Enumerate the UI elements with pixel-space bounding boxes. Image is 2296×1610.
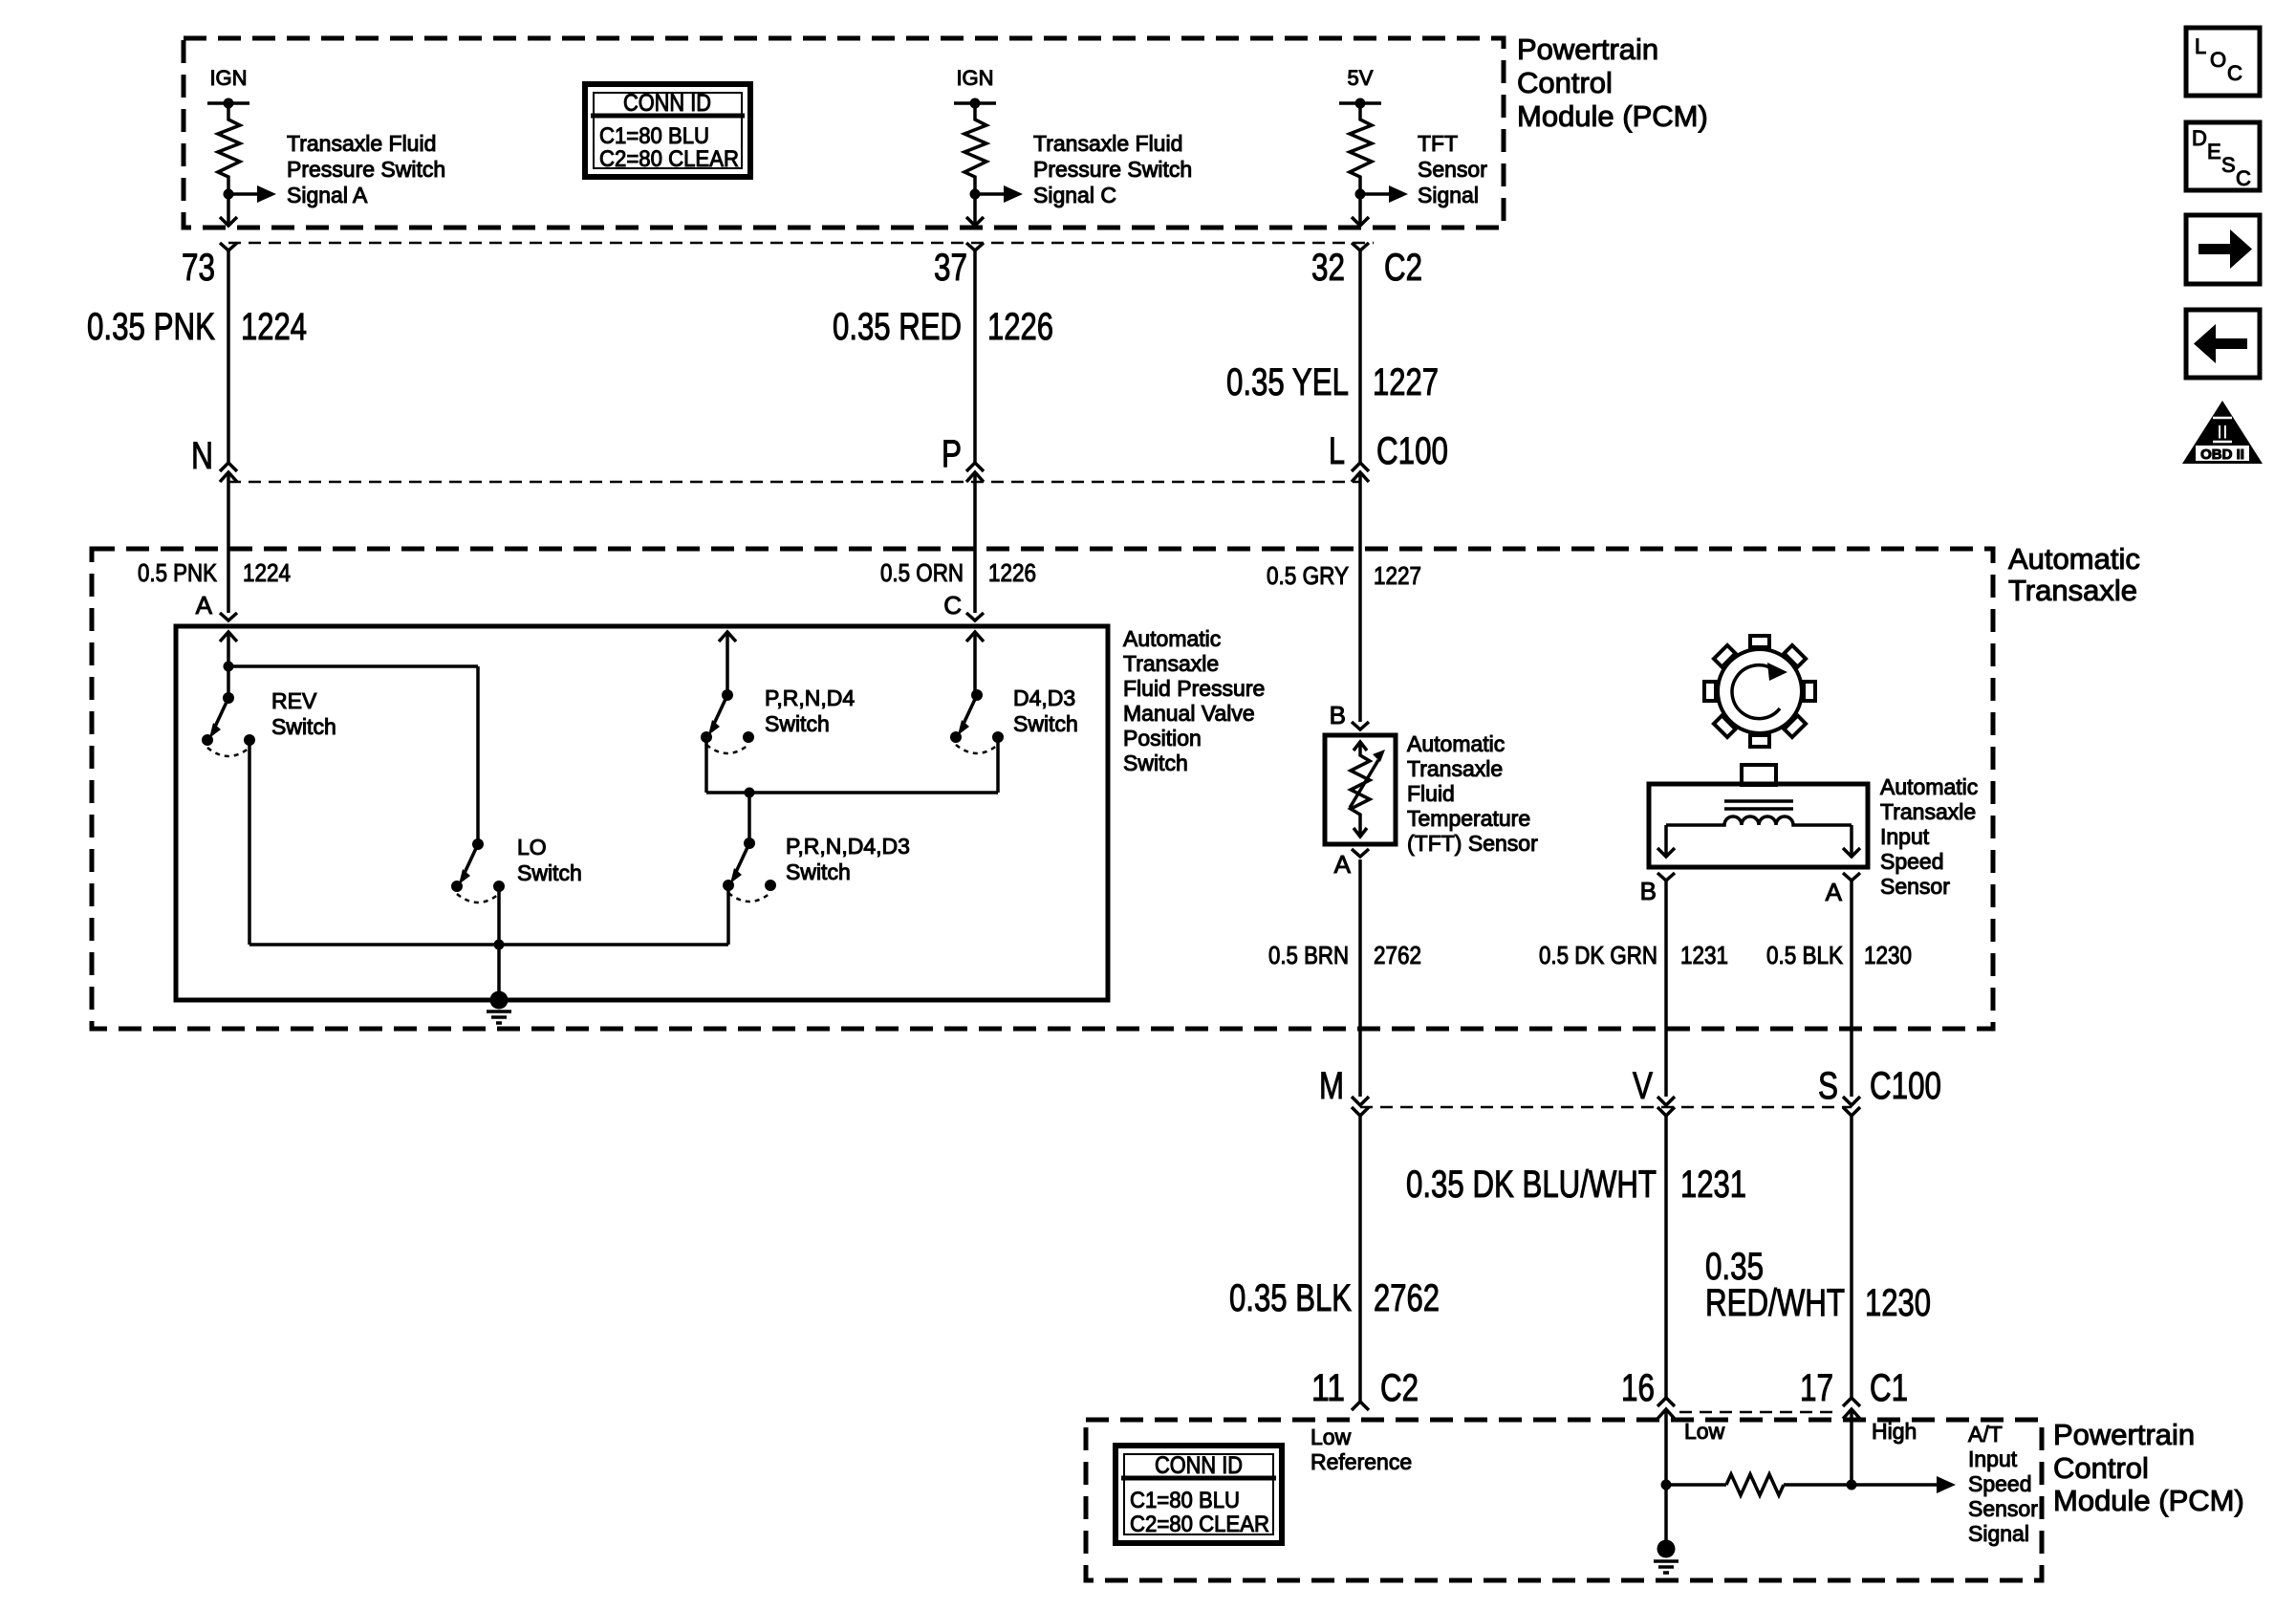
svg-text:C2=80 CLEAR: C2=80 CLEAR: [1130, 1512, 1269, 1537]
internal resistor (horizontal): [1666, 1483, 1726, 1487]
svg-text:C1=80 BLU: C1=80 BLU: [599, 123, 709, 149]
svg-text:Signal: Signal: [1418, 183, 1479, 207]
signal arrow: [228, 192, 257, 196]
svg-text:Automatic: Automatic: [1407, 731, 1505, 756]
svg-text:S: S: [2221, 153, 2236, 177]
svg-text:0.5 DK GRN: 0.5 DK GRN: [1539, 941, 1657, 969]
wire speed B down: [1664, 881, 1668, 1097]
CONN ID table (top): [585, 84, 750, 177]
svg-text:17: 17: [1800, 1367, 1833, 1409]
connector C1 dashed segment: [1679, 1411, 1838, 1414]
svg-text:CONN ID: CONN ID: [1155, 1452, 1243, 1479]
dashed throw arc: [706, 745, 748, 753]
svg-text:Module (PCM): Module (PCM): [1517, 99, 1708, 133]
svg-text:A: A: [196, 591, 213, 620]
switch arm with arrowhead: [215, 698, 228, 727]
svg-text:B: B: [1330, 701, 1346, 729]
svg-text:Powertrain: Powertrain: [2053, 1418, 2195, 1451]
wire label 0.35 RED 1226: [833, 306, 1053, 348]
junction dot: [970, 98, 981, 109]
svg-text:Control: Control: [2053, 1451, 2149, 1485]
svg-text:Speed: Speed: [1880, 849, 1944, 874]
svg-text:A/T: A/T: [1968, 1422, 2003, 1447]
terminal fork at A: [220, 613, 237, 620]
svg-text:1230: 1230: [1864, 941, 1912, 969]
svg-text:Signal A: Signal A: [287, 183, 368, 207]
Automatic Transaxle title: [2008, 542, 2140, 607]
connector halves at pin 17: [1843, 1398, 1860, 1406]
svg-text:B: B: [1640, 877, 1657, 905]
wire junction to REV pivot: [227, 666, 230, 698]
wire L to TFT sensor: [1358, 472, 1362, 722]
switch pivot dot: [744, 838, 755, 849]
terminal fork at speed A: [1843, 873, 1860, 881]
signal label: [1033, 131, 1192, 207]
switch arm with arrowhead: [465, 844, 478, 873]
svg-text:Transaxle: Transaxle: [1880, 799, 1976, 824]
CONN ID table (bottom): [1116, 1446, 1282, 1543]
svg-text:D: D: [2192, 126, 2207, 150]
switch pivot dot: [722, 689, 733, 701]
LOC nav icon: [2186, 28, 2260, 96]
connector halves C100 bottom x=1937: [1843, 1097, 1860, 1105]
svg-text:C100: C100: [1376, 430, 1448, 472]
right arrow nav icon: [2186, 215, 2260, 284]
terminal fork at pin 11: [1352, 1402, 1369, 1410]
OBD II icon: [2182, 401, 2263, 464]
junction dot: [224, 189, 234, 200]
svg-text:0.35 DK BLU/WHT: 0.35 DK BLU/WHT: [1406, 1164, 1657, 1206]
svg-text:32: 32: [1311, 247, 1345, 289]
svg-text:Powertrain: Powertrain: [1517, 33, 1658, 66]
wire label 0.35 DK BLU/WHT 1231: [1406, 1164, 1746, 1206]
svg-text:1224: 1224: [243, 558, 291, 587]
switch contacts: [451, 881, 463, 892]
left arrow nav icon: [2186, 310, 2260, 378]
svg-text:CONN ID: CONN ID: [623, 90, 711, 117]
manual valve position switch box (solid): [176, 626, 1108, 1000]
svg-text:Fluid Pressure: Fluid Pressure: [1123, 676, 1265, 701]
wire P,R,N,D4,D3 left contact down: [726, 887, 730, 945]
switch label: [786, 834, 910, 884]
svg-text:Low: Low: [1684, 1419, 1725, 1444]
wire 1226 (37 to P): [973, 250, 977, 463]
power feed stub: [954, 101, 996, 105]
connector halves C100 bottom x=1423: [1352, 1097, 1369, 1105]
terminal fork at speed B: [1657, 873, 1675, 881]
svg-text:IGN: IGN: [209, 66, 247, 90]
signal arrow: [1360, 192, 1389, 196]
junction node 16: [1661, 1480, 1672, 1490]
svg-text:E: E: [2207, 140, 2221, 163]
svg-text:Low: Low: [1310, 1425, 1352, 1449]
connector halves C100 bottom x=1743: [1657, 1097, 1675, 1105]
junction node A: [224, 662, 234, 672]
wire label 0.35 YEL 1227: [1226, 361, 1439, 403]
wire D4,D3 right contact down: [996, 739, 1000, 793]
junction dot: [1355, 189, 1366, 200]
svg-text:0.5 GRY: 0.5 GRY: [1267, 561, 1349, 590]
wire LO contact to ground: [497, 886, 501, 1000]
junction node 17: [1847, 1480, 1857, 1490]
wire 16 internal: [1664, 1409, 1668, 1485]
svg-text:Switch: Switch: [1123, 751, 1188, 775]
speed sensor label: [1880, 774, 1978, 899]
wire M to 11: [1358, 1116, 1362, 1402]
PCM title (top): [1517, 33, 1708, 133]
ground (PCM internal): [1654, 1540, 1679, 1574]
wire 1224 (73 to N): [227, 250, 230, 463]
coil lead B with arrow: [1664, 825, 1668, 857]
switch arm with arrowhead: [964, 695, 977, 724]
svg-text:Switch: Switch: [271, 714, 336, 739]
svg-text:37: 37: [934, 247, 967, 289]
svg-text:V: V: [1633, 1065, 1653, 1107]
svg-text:0.35 PNK: 0.35 PNK: [87, 306, 215, 348]
svg-text:REV: REV: [271, 688, 317, 713]
input speed sensor box: [1649, 784, 1868, 867]
svg-text:16: 16: [1621, 1367, 1655, 1409]
switch arm with arrowhead: [736, 843, 749, 872]
wire P to C: [973, 472, 977, 613]
wire to PCM border with down arrow: [1358, 194, 1362, 226]
DESC nav icon: [2186, 122, 2260, 190]
svg-text:II: II: [2217, 422, 2228, 444]
svg-text:Input: Input: [1968, 1447, 2018, 1471]
svg-text:0.35 RED: 0.35 RED: [833, 306, 962, 348]
svg-text:1224: 1224: [241, 306, 307, 348]
svg-text:Automatic: Automatic: [2008, 542, 2140, 576]
junction dot: [970, 189, 981, 200]
svg-text:Reference: Reference: [1310, 1449, 1412, 1474]
svg-text:Control: Control: [1517, 66, 1613, 99]
svg-text:Transaxle Fluid: Transaxle Fluid: [287, 131, 436, 156]
svg-text:2762: 2762: [1374, 1277, 1440, 1319]
switch contacts: [950, 731, 962, 743]
svg-text:C1: C1: [1870, 1367, 1908, 1409]
terminal fork at TFT B: [1352, 722, 1369, 729]
svg-text:73: 73: [182, 247, 215, 289]
switch label: [1013, 685, 1078, 736]
Powertrain Control Module box (bottom, dashed): [1086, 1420, 2042, 1580]
wire 17 internal: [1850, 1409, 1853, 1485]
svg-text:1231: 1231: [1680, 941, 1728, 969]
coil lead A with arrow: [1850, 825, 1853, 857]
svg-text:A: A: [1334, 850, 1352, 879]
wire REV contact down: [248, 740, 251, 945]
svg-text:Input: Input: [1880, 824, 1930, 849]
svg-text:Fluid: Fluid: [1407, 781, 1455, 806]
switch contacts: [723, 880, 734, 891]
switch label: [517, 835, 582, 885]
TFT sensor label: [1407, 731, 1538, 856]
ground (case): [487, 991, 511, 1024]
wire to PCM border with down arrow: [973, 194, 977, 226]
junction node: [745, 788, 755, 798]
wire label 0.35 BLK 2762: [1229, 1277, 1440, 1319]
Low Reference label: [1310, 1425, 1412, 1474]
svg-text:C2: C2: [1384, 247, 1422, 289]
svg-text:P,R,N,D4: P,R,N,D4: [765, 685, 855, 710]
svg-text:C: C: [2236, 166, 2251, 190]
wire S to 17: [1850, 1116, 1853, 1398]
connector halves C100 x=1020: [966, 463, 984, 471]
entry arrow at A: [220, 632, 237, 642]
speed sensor mount: [1742, 765, 1776, 785]
svg-text:0.5 ORN: 0.5 ORN: [880, 558, 964, 587]
svg-text:C1=80 BLU: C1=80 BLU: [1130, 1488, 1240, 1513]
wire label 0.5 BLK 1230: [1766, 941, 1912, 969]
switch contacts: [701, 731, 712, 743]
svg-text:P: P: [942, 433, 962, 475]
svg-text:L: L: [2195, 34, 2206, 58]
svg-text:L: L: [1329, 430, 1345, 472]
signal label: [1418, 131, 1487, 207]
svg-text:11: 11: [1311, 1367, 1345, 1409]
wire label 0.5 GRY 1227: [1267, 561, 1421, 590]
switch label: [271, 688, 336, 739]
signal label: [287, 131, 445, 207]
svg-text:Manual Valve: Manual Valve: [1123, 701, 1255, 726]
svg-text:0.5 BLK: 0.5 BLK: [1766, 941, 1844, 969]
connector fork at C2 x=1423: [1352, 243, 1369, 250]
dashed throw arc: [207, 748, 249, 756]
wire label 0.5 DK GRN 1231: [1539, 941, 1728, 969]
signal arrow: [975, 192, 1004, 196]
dashed throw arc: [956, 745, 998, 753]
svg-text:Switch: Switch: [1013, 711, 1078, 736]
pickup coil: [1666, 816, 1852, 825]
wire 1227 (32 to L): [1358, 250, 1362, 463]
junction dot: [224, 98, 234, 109]
svg-text:TFT: TFT: [1418, 131, 1458, 156]
svg-text:C2: C2: [1380, 1367, 1419, 1409]
Powertrain Control Module box (top, dashed): [184, 38, 1504, 228]
connector fork at C2 x=239: [220, 243, 237, 250]
switch pivot dot: [472, 838, 484, 850]
wire label 0.5 PNK 1224: [138, 558, 291, 587]
power feed stub: [207, 101, 249, 105]
svg-text:LO: LO: [517, 835, 547, 859]
svg-text:S: S: [1818, 1065, 1838, 1107]
svg-text:Transaxle: Transaxle: [1407, 756, 1503, 781]
switch label: [765, 685, 855, 736]
A/T input speed sensor signal arrow: [1852, 1483, 1937, 1487]
svg-text:2762: 2762: [1374, 941, 1421, 969]
connector fork at C2 x=1020: [966, 243, 984, 250]
wire label 0.5 ORN 1226: [880, 558, 1036, 587]
wire junction to LO branch: [228, 664, 478, 668]
pickup coil core lines: [1724, 799, 1793, 803]
valve position switch label: [1123, 626, 1265, 775]
connector C100 dashed line (bottom): [1360, 1106, 1852, 1109]
A/T signal label: [1968, 1422, 2038, 1546]
svg-text:1227: 1227: [1374, 561, 1421, 590]
dashed throw arc: [457, 894, 499, 903]
svg-text:A: A: [1826, 878, 1843, 906]
svg-text:1230: 1230: [1865, 1282, 1931, 1324]
svg-text:Signal C: Signal C: [1033, 183, 1116, 207]
svg-text:(TFT) Sensor: (TFT) Sensor: [1407, 831, 1538, 856]
switch pivot dot: [971, 689, 983, 701]
svg-text:P,R,N,D4,D3: P,R,N,D4,D3: [786, 834, 910, 859]
wire bus between switch outputs: [706, 791, 998, 794]
svg-text:1226: 1226: [987, 306, 1053, 348]
svg-text:Switch: Switch: [786, 859, 851, 884]
svg-text:0.35 YEL: 0.35 YEL: [1226, 361, 1349, 403]
svg-text:OBD II: OBD II: [2200, 446, 2244, 463]
svg-text:Transaxle: Transaxle: [2008, 574, 2137, 607]
svg-text:C2=80 CLEAR: C2=80 CLEAR: [599, 146, 739, 172]
svg-text:Speed: Speed: [1968, 1471, 2032, 1496]
switch arm with arrowhead: [714, 695, 727, 724]
svg-text:1227: 1227: [1373, 361, 1439, 403]
svg-text:Sensor: Sensor: [1418, 157, 1487, 182]
wire junction to P,R,N,D4,D3 pivot: [747, 793, 751, 843]
Automatic Transaxle box (dashed): [92, 549, 1993, 1029]
svg-text:O: O: [2210, 48, 2226, 72]
junction dot: [1355, 98, 1366, 109]
junction node on bus: [494, 940, 505, 950]
wire label 0.35 RED/WHT 1230: [1705, 1246, 1931, 1324]
svg-text:1231: 1231: [1680, 1164, 1746, 1206]
connector halves at pin 16: [1657, 1398, 1675, 1406]
resistor zigzag: [964, 103, 986, 194]
TFT thermistor symbol: [1354, 742, 1367, 751]
svg-text:Switch: Switch: [517, 860, 582, 885]
wire label 0.35 PNK 1224: [87, 306, 307, 348]
svg-text:0.5 PNK: 0.5 PNK: [138, 558, 218, 587]
svg-text:1226: 1226: [988, 558, 1036, 587]
svg-text:Position: Position: [1123, 726, 1202, 751]
wire to PCM border with down arrow: [227, 194, 230, 226]
connector halves C100 x=1423: [1352, 463, 1369, 471]
svg-text:Transaxle: Transaxle: [1123, 651, 1219, 676]
connector halves C100 x=239: [220, 463, 237, 471]
svg-text:Pressure Switch: Pressure Switch: [1033, 157, 1192, 182]
svg-text:C100: C100: [1870, 1065, 1941, 1107]
svg-text:Module (PCM): Module (PCM): [2053, 1484, 2244, 1517]
wire N to A: [227, 472, 230, 613]
resistor zigzag: [1350, 103, 1372, 194]
svg-text:High: High: [1872, 1419, 1917, 1444]
ground bus wire: [249, 943, 728, 946]
svg-text:Automatic: Automatic: [1880, 774, 1978, 799]
svg-text:Pressure Switch: Pressure Switch: [287, 157, 445, 182]
svg-text:Automatic: Automatic: [1123, 626, 1221, 651]
entry arrow at C: [966, 632, 984, 642]
wire 16 to ground: [1664, 1485, 1668, 1549]
wire speed A down: [1850, 881, 1853, 1097]
svg-text:5V: 5V: [1348, 66, 1374, 90]
svg-text:C: C: [2227, 61, 2242, 85]
svg-text:Signal: Signal: [1968, 1521, 2029, 1546]
svg-text:D4,D3: D4,D3: [1013, 685, 1075, 710]
power feed stub: [1339, 101, 1381, 105]
switch pivot dot: [223, 692, 234, 704]
svg-text:Transaxle Fluid: Transaxle Fluid: [1033, 131, 1182, 156]
svg-text:0.5 BRN: 0.5 BRN: [1268, 941, 1349, 969]
wire label 0.5 BRN 2762: [1268, 941, 1421, 969]
terminal fork at TFT A: [1352, 849, 1369, 857]
connector C100 dashed line (top): [228, 481, 1360, 484]
wire P,R,N,D4 left contact down: [704, 739, 708, 793]
wire V to 16: [1664, 1116, 1668, 1398]
speed sensor gear: [1704, 636, 1815, 747]
svg-text:Switch: Switch: [765, 711, 830, 736]
PCM title (bottom): [2053, 1418, 2244, 1517]
switch contacts: [202, 734, 213, 746]
svg-text:IGN: IGN: [956, 66, 993, 90]
terminal fork at C: [966, 613, 984, 620]
svg-text:Sensor: Sensor: [1880, 874, 1950, 899]
svg-text:N: N: [191, 435, 213, 477]
TFT sensor box: [1325, 735, 1396, 844]
svg-text:Temperature: Temperature: [1407, 806, 1530, 831]
svg-text:RED/WHT: RED/WHT: [1705, 1282, 1845, 1324]
svg-text:0.35 BLK: 0.35 BLK: [1229, 1277, 1352, 1319]
connector C2 dashed line: [228, 242, 1374, 245]
P,R,N,D4 switch top arrow: [719, 632, 736, 642]
dashed throw arc: [728, 893, 770, 902]
svg-text:Sensor: Sensor: [1968, 1496, 2038, 1521]
svg-text:C: C: [943, 591, 962, 620]
svg-text:M: M: [1319, 1065, 1344, 1107]
resistor zigzag: [218, 103, 240, 194]
